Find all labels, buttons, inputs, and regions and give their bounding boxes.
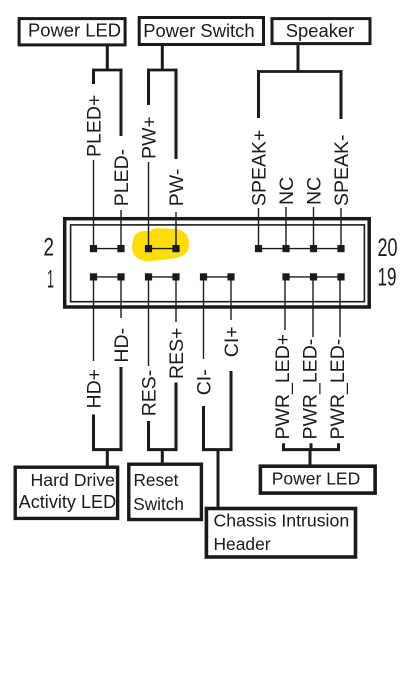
wire HD+ to bar [92,415,95,452]
svg-text:20: 20 [378,234,398,262]
wire PW- to pin 8 [175,212,177,248]
svg-text:Activity LED: Activity LED [19,492,117,512]
box Power LED (top) [19,19,125,45]
wire pin 1 to HD+ [93,278,95,361]
wire pin14-pin20 link [259,248,342,250]
wire CI stem to box [217,450,220,508]
box Hard Drive Activity LED [15,467,117,518]
box Reset Switch [129,464,202,519]
svg-text:Switch: Switch [133,494,184,514]
wire pin 7 to RES+ [175,278,177,322]
pin 17 PWR_LED- [310,273,317,280]
wire RES+ to bar [175,383,178,452]
wire PWR_LED- 2 to bar [337,443,340,451]
wire PW+ to pin 6 [148,162,150,248]
svg-text:SPEAK+: SPEAK+ [248,130,270,206]
wire RES- to bar [147,421,150,451]
wire PWR_LED+ to bar [282,443,285,451]
svg-text:Power LED: Power LED [272,468,361,488]
wire HD stem to box [106,450,109,467]
svg-text:NC: NC [276,177,298,205]
wire pin1-pin3 link [94,276,122,278]
svg-text:RES-: RES- [138,370,160,417]
wire Power Switch T-bar [147,69,178,72]
box Power Switch [139,18,263,45]
connector header outer body [65,219,370,307]
wire pin2-pin4 link [94,248,122,250]
wire PWR_LED- to bar [310,443,313,451]
wire Power LED stem [106,45,109,70]
pin 11 CI+ [227,273,234,280]
wire pin 15 to PWR_LED+ [284,278,286,330]
wire HD- to bar [120,367,123,451]
pin 18 NC [310,245,317,252]
connector header inner outline [71,225,365,302]
pin 2 PLED+ [90,245,97,252]
wire PWR stem to box [309,450,312,466]
svg-text:PW-: PW- [166,169,188,207]
svg-text:1: 1 [47,266,54,294]
pin 8 PW- [172,245,179,252]
wire CI- to bar [202,406,205,451]
pin 4 PLED- [117,245,124,252]
svg-text:Hard Drive: Hard Drive [30,470,115,490]
wire SPEAK+ to pin 14 [258,208,260,248]
wire Speaker stem [297,44,300,72]
svg-text:Reset: Reset [134,470,179,490]
svg-text:Power LED: Power LED [28,20,121,41]
pin 5 RES- [145,273,152,280]
svg-text:19: 19 [378,264,397,292]
wire PW+ drop [147,69,150,105]
wire pin6-pin8 link [149,248,177,250]
svg-text:Chassis Intrusion: Chassis Intrusion [214,511,350,531]
wire Speaker T-bar [257,70,343,73]
pin 19 PWR_LED- [337,273,344,280]
wire RES group bar [147,448,178,451]
wire NC to pin 16 [285,207,287,248]
wire SPEAK- to pin 20 [340,208,342,248]
wire NC to pin 18 [313,207,315,248]
wire RES stem to box [161,450,164,464]
pin 1 HD+ [90,273,97,280]
wire PLED- drop [120,69,123,136]
box Power LED (bottom) [260,466,375,493]
wire pin15-pin19 link [286,276,341,278]
wire pin9-pin11 link [204,276,232,278]
pin 7 RES+ [172,273,179,280]
svg-text:Speaker: Speaker [286,20,355,41]
pin 15 PWR_LED+ [282,273,289,280]
wire PLED+ to pin 2 [93,160,95,248]
wire pin 3 to HD- [120,278,122,318]
wire Power Switch stem [161,45,164,71]
wire pin5-pin7 link [149,276,177,278]
svg-text:CI-: CI- [193,369,215,395]
svg-text:CI+: CI+ [221,326,243,357]
svg-text:PWR_LED-: PWR_LED- [327,339,349,440]
wire pin 19 to PWR_LED- [339,278,341,337]
wire PWR group bar [282,448,340,451]
wire PLED- to pin 4 [120,210,122,248]
wire PW- drop [175,69,178,159]
svg-text:RES+: RES+ [166,328,188,379]
svg-text:NC: NC [303,177,325,205]
wire HD group bar [92,448,123,451]
svg-text:HD+: HD+ [83,369,105,409]
wire SPEAK- drop [340,70,343,119]
wire pin 9 to CI- [203,278,205,359]
pin 6 PW+ [145,245,152,252]
wire CI group bar [202,448,233,451]
pin 9 CI- [200,273,207,280]
svg-text:PLED-: PLED- [111,149,133,206]
wire CI+ to bar [230,371,233,451]
box Chassis Intrusion Header [206,509,355,558]
pin 20 SPEAK- [337,245,344,252]
svg-text:SPEAK-: SPEAK- [331,134,353,206]
svg-text:PWR_LED-: PWR_LED- [300,339,322,440]
svg-text:2: 2 [44,233,55,261]
svg-text:Power Switch: Power Switch [143,20,254,41]
pin 16 NC [282,245,289,252]
pin 14 SPEAK+ [255,245,262,252]
svg-text:PWR_LED+: PWR_LED+ [272,334,294,440]
svg-text:PLED+: PLED+ [83,95,105,157]
svg-text:Header: Header [214,534,271,554]
pin 3 HD- [117,273,124,280]
wire SPEAK+ drop [257,70,260,118]
box Speaker [272,19,370,44]
wire PLED+ drop [92,69,95,84]
wire pin 17 to PWR_LED- [312,278,314,337]
svg-text:PW+: PW+ [138,116,160,159]
svg-text:HD-: HD- [111,328,133,363]
wire pin 5 to RES- [148,278,150,366]
wire Power LED T-bar [92,69,123,72]
wire pin 11 to CI+ [230,278,232,320]
highlight marker over PW+/PW- pins [132,228,189,261]
